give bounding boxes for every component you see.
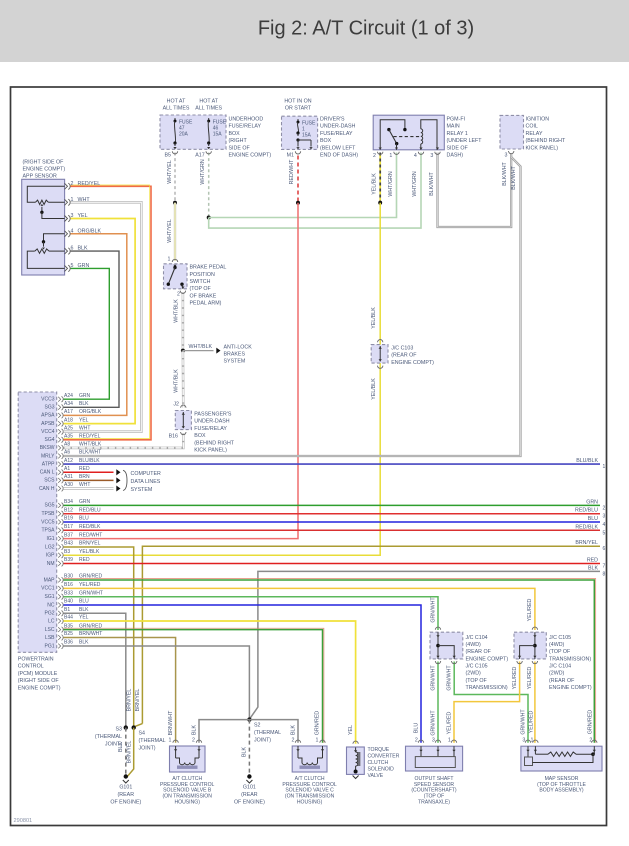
wire RED PCM A1 to computer data lines: [64, 471, 114, 473]
junction connector C104: [430, 632, 463, 659]
svg-text:1: 1: [169, 738, 172, 744]
svg-text:J/C C103: J/C C103: [391, 346, 413, 352]
svg-text:YEL/RED: YEL/RED: [447, 711, 453, 734]
relay pin 4: [418, 152, 423, 155]
svg-text:PGM-FI: PGM-FI: [447, 117, 466, 123]
svg-text:TRANSMISSION): TRANSMISSION): [549, 656, 591, 662]
svg-text:TRANSMISSION): TRANSMISSION): [466, 685, 508, 691]
wire GRN/WHT J/C C104 to MAP sensor pin 3: [454, 662, 528, 743]
svg-text:LC: LC: [48, 618, 55, 624]
svg-text:B36: B36: [64, 640, 73, 646]
junction connector C103: [371, 345, 388, 364]
wire BLK APP pin 6 to PCM A34: [64, 251, 120, 407]
wire BLK S2 to solenoid valve B pin 2: [199, 720, 249, 743]
svg-text:(THERMAL: (THERMAL: [95, 734, 122, 740]
svg-text:MAIN: MAIN: [447, 124, 460, 130]
svg-text:2: 2: [177, 292, 180, 298]
wire WHT APP pin 1 to PCM A25: [64, 202, 142, 431]
svg-text:(RIGHT: (RIGHT: [229, 138, 248, 144]
svg-text:(PCM) MODULE: (PCM) MODULE: [18, 671, 58, 677]
svg-text:RED: RED: [79, 557, 90, 563]
svg-text:FUSE/RELAY: FUSE/RELAY: [229, 124, 262, 130]
svg-text:UNDERHOOD: UNDERHOOD: [229, 117, 264, 123]
svg-text:GRN/RED: GRN/RED: [79, 574, 102, 580]
svg-text:BRN/WHT: BRN/WHT: [168, 710, 174, 735]
svg-text:GRN/RED: GRN/RED: [79, 623, 102, 629]
svg-text:3: 3: [71, 213, 74, 219]
svg-text:VCC5: VCC5: [41, 519, 55, 525]
svg-text:CAN H: CAN H: [39, 486, 55, 492]
junction dot YEL/BLK: [378, 201, 382, 205]
svg-text:(REAR OF: (REAR OF: [391, 353, 417, 359]
svg-text:(BEHIND RIGHT: (BEHIND RIGHT: [194, 440, 234, 446]
svg-text:WHT/GRN: WHT/GRN: [200, 159, 206, 184]
svg-text:B17: B17: [64, 524, 73, 530]
svg-text:2: 2: [589, 738, 592, 744]
wire BRN/YEL thermal joint S4 to terminal 6: [142, 546, 600, 723]
svg-text:VCC4: VCC4: [41, 429, 55, 435]
svg-text:(TOP OF: (TOP OF: [466, 678, 488, 684]
svg-text:RED/YEL: RED/YEL: [78, 181, 101, 187]
wire WHT/GRN fuse A17 dashed segment: [208, 153, 210, 218]
svg-text:PASSENGER'S: PASSENGER'S: [194, 412, 232, 418]
svg-text:DATA LINES: DATA LINES: [131, 479, 161, 485]
svg-text:YEL/RED: YEL/RED: [79, 582, 101, 588]
svg-text:(TOP OF: (TOP OF: [190, 286, 212, 292]
svg-text:ENGINE COMPT): ENGINE COMPT): [23, 167, 66, 173]
relay coil: [421, 129, 423, 144]
svg-text:IGP: IGP: [46, 553, 55, 559]
svg-text:A1: A1: [64, 466, 70, 472]
svg-text:A12: A12: [64, 458, 73, 464]
relay pin 3: [435, 152, 440, 155]
wire WHT/BLK brake switch to junction: [182, 293, 185, 351]
APP sensor pin 4: [65, 231, 68, 237]
svg-text:ORG/BLK: ORG/BLK: [78, 228, 102, 234]
svg-text:290801: 290801: [14, 818, 33, 824]
svg-text:5: 5: [603, 530, 606, 536]
wire GRN/WHT PCM B33 to J/C C104: [64, 597, 439, 630]
svg-text:2: 2: [192, 738, 195, 744]
brake switch contact: [173, 266, 176, 269]
svg-text:2: 2: [71, 181, 74, 187]
svg-text:RED/BLK: RED/BLK: [79, 524, 101, 530]
svg-text:6: 6: [71, 246, 74, 252]
svg-text:RED/BLU: RED/BLU: [575, 508, 598, 514]
svg-text:BRAKES: BRAKES: [224, 352, 246, 358]
svg-text:APP SENSOR: APP SENSOR: [23, 174, 58, 180]
svg-text:BLK: BLK: [78, 246, 88, 252]
APP sensor pin 3: [65, 216, 68, 222]
svg-text:B25: B25: [64, 631, 73, 637]
svg-text:HOUSING): HOUSING): [174, 799, 200, 805]
svg-text:YEL: YEL: [79, 417, 89, 423]
svg-text:(REAR OF: (REAR OF: [549, 678, 575, 684]
svg-text:BLK: BLK: [79, 401, 89, 407]
svg-text:BLK/WHT: BLK/WHT: [429, 171, 435, 195]
thermal joint S3 junction dot: [124, 725, 128, 729]
svg-text:2: 2: [415, 738, 418, 744]
pin M1: [295, 151, 300, 154]
svg-text:BRN/WHT: BRN/WHT: [79, 631, 102, 637]
svg-text:VALVE: VALVE: [368, 773, 384, 779]
svg-text:3: 3: [522, 738, 525, 744]
output shaft speed sensor: [406, 746, 463, 771]
svg-text:YEL/RED: YEL/RED: [512, 666, 518, 689]
svg-text:SYSTEM: SYSTEM: [224, 359, 246, 365]
svg-text:3: 3: [603, 514, 606, 520]
svg-text:CAN L: CAN L: [40, 470, 55, 476]
svg-text:3: 3: [505, 153, 508, 159]
svg-text:GRN: GRN: [586, 499, 598, 505]
svg-text:SCS: SCS: [44, 478, 55, 484]
wire BLU/BLK PCM A12 to terminal 1: [64, 463, 601, 465]
wire YEL/BLK to J/C C103 and PCM B3: [64, 203, 381, 556]
brake switch pin 1: [172, 259, 177, 262]
svg-text:LSB: LSB: [45, 635, 55, 641]
svg-text:2: 2: [373, 153, 376, 159]
svg-text:IGNITION: IGNITION: [526, 117, 550, 123]
svg-text:HOT IN ON: HOT IN ON: [284, 99, 311, 105]
svg-text:PG2: PG2: [44, 611, 54, 617]
svg-text:(BELOW LEFT: (BELOW LEFT: [320, 145, 356, 151]
svg-text:ANTI-LOCK: ANTI-LOCK: [224, 345, 253, 351]
svg-text:UNDER-DASH: UNDER-DASH: [320, 124, 355, 130]
svg-text:YEL/BLK: YEL/BLK: [371, 307, 377, 329]
wire GRN PCM B34 to terminal 2: [64, 504, 601, 506]
svg-text:B1: B1: [64, 607, 70, 613]
wire YEL/RED PCM B16 to J/C C105: [64, 588, 535, 630]
APP sensor pin 5: [65, 265, 68, 271]
svg-text:B37: B37: [64, 532, 73, 538]
brake switch pin 2: [180, 291, 185, 294]
svg-text:A24: A24: [64, 393, 73, 399]
svg-text:BRN/YEL: BRN/YEL: [126, 689, 132, 712]
svg-text:B16: B16: [169, 433, 178, 439]
APP sensor wiper 1: [40, 204, 43, 206]
computer data lines system label: [123, 470, 127, 490]
svg-text:A6: A6: [64, 450, 70, 456]
svg-text:Fig 2: A/T Circuit (1 of 3): Fig 2: A/T Circuit (1 of 3): [258, 18, 474, 40]
svg-text:PG1: PG1: [44, 643, 54, 649]
svg-text:BLK: BLK: [118, 742, 124, 752]
svg-text:DRIVER'S: DRIVER'S: [320, 117, 345, 123]
svg-text:1: 1: [389, 153, 392, 159]
svg-text:BRN/YEL: BRN/YEL: [575, 540, 598, 546]
svg-text:HOT AT: HOT AT: [167, 99, 186, 105]
svg-text:B44: B44: [64, 615, 73, 621]
ignition coil relay box: [500, 115, 524, 149]
svg-text:END OF DASH): END OF DASH): [320, 153, 358, 159]
wire GRN/RED PCM B35 to solenoid valve C pin 1: [64, 630, 323, 743]
svg-text:SOLENOID: SOLENOID: [368, 767, 395, 773]
svg-text:A30: A30: [64, 482, 73, 488]
svg-text:BRN/YEL: BRN/YEL: [135, 689, 141, 712]
svg-text:(REAR: (REAR: [241, 792, 258, 798]
svg-text:B12: B12: [64, 507, 73, 513]
svg-text:YEL/BLK: YEL/BLK: [372, 173, 378, 195]
APP sensor resistor 1: [27, 186, 64, 202]
svg-text:NM: NM: [47, 561, 55, 567]
APP sensor wiper 2: [44, 234, 65, 242]
svg-text:B5: B5: [165, 153, 172, 159]
wire BLK S2 to solenoid valve C pin 2: [249, 720, 298, 743]
svg-text:GRN/WHT: GRN/WHT: [430, 597, 436, 623]
svg-text:DASH): DASH): [447, 153, 464, 159]
fuse 47 20A: [174, 118, 176, 121]
powertrain control module (PCM) box: [18, 392, 57, 652]
wire BRN/WHT PCM B25 to solenoid valve B pin 1: [64, 638, 176, 743]
svg-text:OF ENGINE): OF ENGINE): [110, 800, 141, 806]
svg-text:ENGINE COMPT): ENGINE COMPT): [549, 685, 592, 691]
svg-text:ENGINE COMPT): ENGINE COMPT): [229, 153, 272, 159]
svg-text:ORG/BLK: ORG/BLK: [79, 409, 102, 415]
svg-text:BRN: BRN: [79, 474, 90, 480]
svg-text:WHT/YEL: WHT/YEL: [167, 219, 173, 243]
svg-text:WHT: WHT: [79, 482, 90, 488]
svg-text:BLK/WHT: BLK/WHT: [502, 161, 508, 185]
fuse 1 15A: [297, 119, 299, 122]
svg-text:SWITCH: SWITCH: [190, 279, 211, 285]
passenger's under-dash fuse/relay box: [175, 411, 191, 430]
svg-text:BLK: BLK: [79, 640, 89, 646]
svg-text:OR START: OR START: [285, 106, 312, 112]
svg-text:20A: 20A: [179, 132, 189, 138]
svg-text:KICK PANEL): KICK PANEL): [194, 448, 227, 454]
svg-text:SIDE OF: SIDE OF: [229, 145, 251, 151]
brake pedal position switch: [164, 264, 188, 289]
svg-text:YEL/BLK: YEL/BLK: [371, 378, 377, 400]
svg-text:WHT/YEL: WHT/YEL: [167, 160, 173, 184]
svg-text:J/C C104: J/C C104: [549, 664, 571, 670]
svg-text:RED/WHT: RED/WHT: [79, 532, 102, 538]
wire YEL/RED J/C C105 to MAP sensor pin 1: [534, 662, 536, 743]
svg-text:GRN: GRN: [79, 499, 91, 505]
svg-text:4: 4: [603, 522, 606, 528]
svg-text:OF BRAKE: OF BRAKE: [190, 293, 217, 299]
wire BRN/YEL PCM B43 to thermal joint S4: [64, 547, 134, 728]
svg-text:A17: A17: [195, 153, 204, 159]
svg-text:J/C C105: J/C C105: [466, 664, 488, 670]
svg-text:GRN: GRN: [78, 263, 90, 269]
svg-text:ENGINE COMPT): ENGINE COMPT): [466, 656, 509, 662]
wire BRN/YEL S4 to ground G101: [127, 728, 133, 777]
svg-text:TPSA: TPSA: [41, 528, 55, 534]
APP sensor resistor 2: [35, 249, 49, 253]
svg-text:RED/WHT: RED/WHT: [289, 159, 295, 184]
wire WHT/BLK passenger fuse box B16 to PCM A8: [64, 434, 184, 448]
svg-text:WHT: WHT: [79, 425, 90, 431]
svg-text:2: 2: [292, 738, 295, 744]
svg-text:6: 6: [603, 546, 606, 552]
wire BRN PCM A31 to computer data lines: [64, 479, 114, 481]
svg-text:S3: S3: [116, 727, 123, 733]
svg-text:BLK: BLK: [79, 607, 89, 613]
svg-text:8: 8: [603, 571, 606, 577]
svg-text:(REAR OF: (REAR OF: [466, 649, 492, 655]
svg-text:GRN/WHT: GRN/WHT: [430, 710, 436, 736]
wire WHT/BLK branch to anti-lock brakes arrow: [183, 350, 214, 352]
svg-text:CLUTCH: CLUTCH: [368, 760, 389, 766]
svg-text:B30: B30: [64, 574, 73, 580]
wire WHT/BLK junction to passenger fuse box J2: [182, 351, 185, 408]
svg-text:WHT/BLK: WHT/BLK: [173, 369, 179, 393]
svg-text:ENGINE COMPT): ENGINE COMPT): [18, 685, 61, 691]
relay pin 1: [394, 152, 399, 155]
svg-text:BODY ASSEMBLY): BODY ASSEMBLY): [539, 788, 584, 794]
svg-text:3: 3: [432, 738, 435, 744]
svg-text:(THERMAL: (THERMAL: [254, 730, 281, 736]
junction dot WHT/YEL: [173, 201, 177, 205]
svg-text:WHT/BLK: WHT/BLK: [173, 299, 179, 323]
svg-text:A35: A35: [64, 434, 73, 440]
svg-text:HOUSING): HOUSING): [297, 799, 323, 805]
svg-text:BLK: BLK: [241, 747, 247, 757]
wire RED/YEL APP pin 2 to PCM A35: [64, 186, 152, 439]
APP sensor box: [22, 179, 65, 275]
svg-text:APSA: APSA: [41, 413, 55, 419]
svg-text:POWERTRAIN: POWERTRAIN: [18, 657, 54, 663]
svg-text:4: 4: [414, 153, 417, 159]
svg-text:SG1: SG1: [44, 594, 54, 600]
svg-text:(4WD): (4WD): [549, 642, 565, 648]
svg-text:A18: A18: [64, 417, 73, 423]
svg-text:RED: RED: [79, 466, 90, 472]
svg-text:RED/BLK: RED/BLK: [575, 524, 598, 530]
wire YEL PCM B44 to torque converter clutch solenoid: [64, 621, 356, 744]
svg-text:MRLY: MRLY: [41, 453, 55, 459]
wire RED/BLK PCM B17 to terminal 5: [64, 529, 601, 531]
svg-text:VCC1: VCC1: [41, 586, 55, 592]
thermal joint S2 junction dot: [247, 717, 251, 721]
wire BLK terminal 8 to thermal joint S2: [250, 571, 600, 718]
svg-text:FUSE/RELAY: FUSE/RELAY: [194, 426, 227, 432]
svg-text:VCC3: VCC3: [41, 397, 55, 403]
svg-text:BLU: BLU: [414, 723, 420, 733]
svg-text:RELAY 1: RELAY 1: [447, 131, 468, 137]
svg-text:TORQUE: TORQUE: [368, 747, 390, 753]
svg-text:WHT/BLK: WHT/BLK: [189, 344, 213, 350]
svg-text:SYSTEM: SYSTEM: [131, 487, 153, 493]
svg-text:GRN/WHT: GRN/WHT: [430, 665, 436, 691]
svg-text:COIL: COIL: [526, 124, 538, 130]
svg-text:1: 1: [71, 197, 74, 203]
svg-text:LSC: LSC: [45, 627, 55, 633]
svg-text:BLK/WHT: BLK/WHT: [511, 165, 517, 189]
wire WHT PCM A30 to computer data lines: [64, 487, 114, 490]
wire WHT/YEL fuse B5 dashed segment: [174, 153, 176, 203]
svg-text:3: 3: [430, 153, 433, 159]
svg-text:BRN/YEL: BRN/YEL: [79, 541, 101, 547]
thermal joint S4 junction dot: [132, 725, 136, 729]
wire RED PCM B39 to terminal 7: [64, 563, 601, 565]
svg-text:WHT: WHT: [78, 197, 91, 203]
svg-text:NC: NC: [47, 602, 55, 608]
junction dot WHT/BLK anti-lock branch: [181, 349, 185, 353]
junction connector C105: [514, 632, 546, 659]
pin A17: [206, 151, 211, 154]
svg-text:G101: G101: [243, 785, 256, 791]
svg-text:B16: B16: [64, 582, 73, 588]
svg-text:YEL/BLK: YEL/BLK: [79, 549, 100, 555]
svg-text:1: 1: [603, 464, 606, 470]
junction dot WHT/GRN: [207, 216, 211, 220]
svg-text:B34: B34: [64, 499, 73, 505]
relay contact switch: [380, 120, 405, 150]
svg-text:OF ENGINE): OF ENGINE): [234, 800, 265, 806]
wire WHT/GRN to relay pin 4: [209, 153, 421, 229]
svg-text:YEL/RED: YEL/RED: [529, 710, 535, 733]
svg-text:YEL: YEL: [78, 213, 88, 219]
torque converter clutch solenoid valve: [347, 747, 365, 774]
svg-text:SIDE OF: SIDE OF: [447, 145, 469, 151]
svg-text:5: 5: [71, 263, 74, 269]
ground G101 left: [124, 774, 128, 778]
driver's under-dash fuse/relay box: [282, 116, 318, 149]
svg-text:CONVERTER: CONVERTER: [368, 754, 400, 760]
svg-text:YEL: YEL: [348, 725, 354, 735]
svg-text:GRN/RED: GRN/RED: [588, 710, 594, 735]
svg-text:B40: B40: [64, 599, 73, 605]
svg-text:(RIGHT SIDE OF: (RIGHT SIDE OF: [23, 159, 65, 165]
svg-text:HOT AT: HOT AT: [199, 99, 218, 105]
svg-text:BLK: BLK: [588, 565, 598, 571]
svg-text:J/C C105: J/C C105: [549, 635, 571, 641]
svg-text:15A: 15A: [213, 132, 223, 138]
svg-text:WHT/GRN: WHT/GRN: [412, 171, 418, 196]
svg-text:TRANSAXLE): TRANSAXLE): [418, 799, 450, 805]
MAP sensor: [521, 746, 602, 771]
svg-text:B19: B19: [64, 516, 73, 522]
pin B5: [172, 151, 177, 154]
svg-text:2: 2: [603, 505, 606, 511]
svg-text:BLU/BLK: BLU/BLK: [79, 458, 100, 464]
svg-text:CONTROL: CONTROL: [18, 664, 44, 670]
wire BLK/WHT ignition coil relay to PCM A6: [64, 157, 521, 456]
svg-text:BLK: BLK: [192, 725, 198, 735]
svg-text:S4: S4: [139, 731, 146, 737]
fuse 46 15A: [208, 118, 210, 121]
svg-text:(UNDER LEFT: (UNDER LEFT: [447, 138, 483, 144]
svg-text:SG5: SG5: [44, 503, 54, 509]
svg-text:BRN/YEL: BRN/YEL: [126, 741, 132, 764]
svg-text:KICK PANEL): KICK PANEL): [526, 145, 559, 151]
wire BLK PCM B1 to thermal joint S3: [64, 613, 126, 727]
svg-text:B39: B39: [64, 557, 73, 563]
wire GRN/WHT J/C C104 to output shaft speed sensor pin 3: [437, 662, 439, 743]
header bar: [0, 0, 629, 62]
wire WHT/YEL solid segment to brake pedal switch: [174, 203, 176, 261]
svg-text:1: 1: [316, 738, 319, 744]
svg-text:(REAR: (REAR: [118, 792, 135, 798]
svg-text:BLK: BLK: [291, 725, 297, 735]
svg-text:BLU/BLK: BLU/BLK: [576, 458, 598, 464]
wire BLK S2 to ground G101 dashed: [248, 720, 250, 777]
junction dot RED/WHT: [296, 201, 300, 205]
svg-text:MAP: MAP: [44, 577, 56, 583]
svg-text:IG1: IG1: [46, 536, 54, 542]
ignition relay pin 3: [509, 151, 514, 154]
svg-text:FUSE/RELAY: FUSE/RELAY: [320, 131, 353, 137]
svg-text:JOINT): JOINT): [254, 738, 271, 744]
wire BLK/WHT relay pin 3 to ignition coil relay: [438, 153, 512, 228]
svg-text:BRAKE PEDAL: BRAKE PEDAL: [190, 265, 227, 271]
svg-text:GRN/WHT: GRN/WHT: [447, 665, 453, 691]
svg-text:1: 1: [168, 257, 171, 263]
svg-text:G101: G101: [119, 785, 132, 791]
svg-text:SG4: SG4: [44, 437, 54, 443]
relay pin 2: [378, 152, 383, 155]
